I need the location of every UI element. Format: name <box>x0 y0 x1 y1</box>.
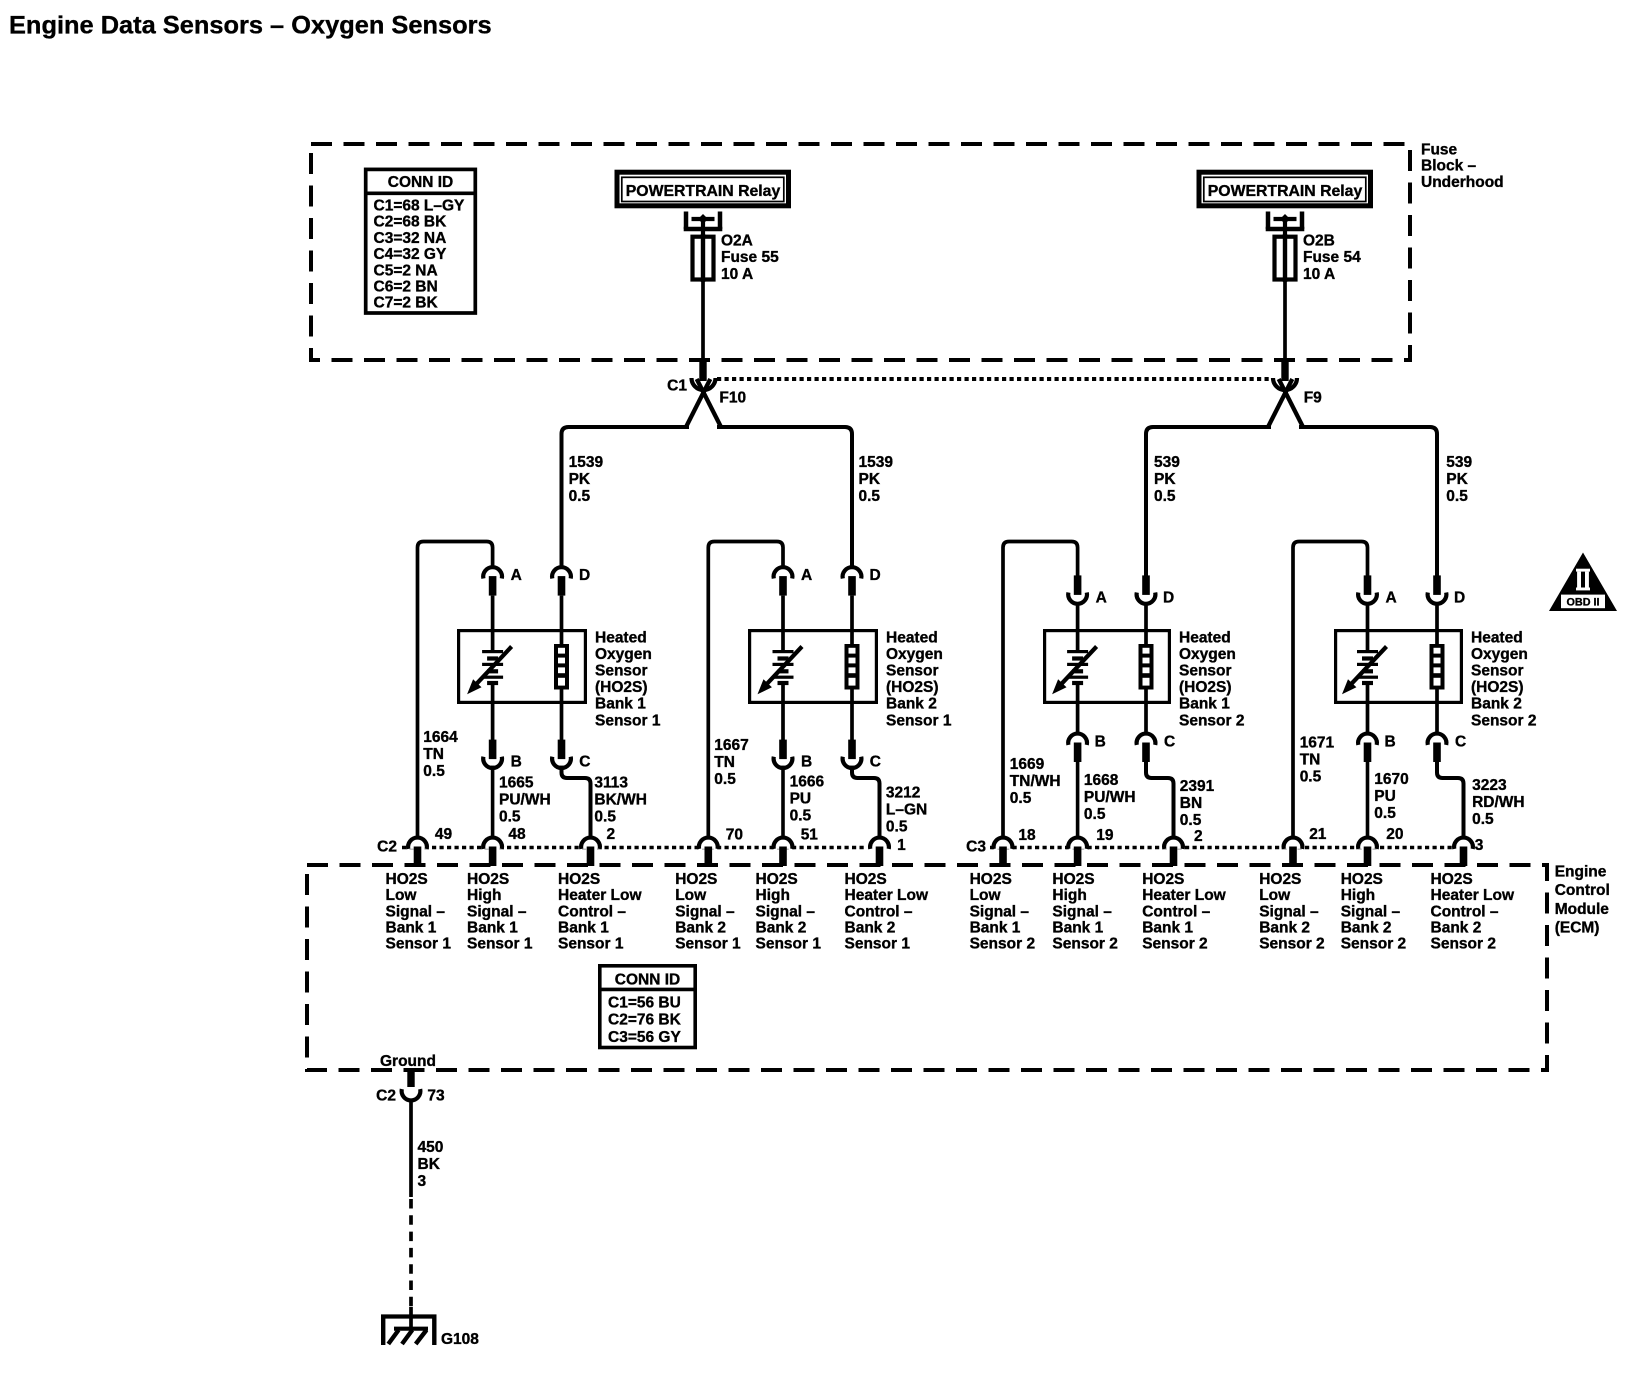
svg-text:A: A <box>1386 590 1397 607</box>
variable voltage sensing element (zirconia cell) <box>1357 650 1378 685</box>
svg-text:0.5: 0.5 <box>1010 790 1032 807</box>
svg-text:Oxygen: Oxygen <box>1471 646 1528 663</box>
svg-text:1665: 1665 <box>499 774 534 791</box>
wire D into sensor heater <box>560 596 564 647</box>
svg-text:Sensor 1: Sensor 1 <box>886 712 952 729</box>
svg-text:F10: F10 <box>719 390 746 407</box>
svg-text:Bank 2: Bank 2 <box>756 919 807 936</box>
svg-text:Bank 2: Bank 2 <box>675 919 726 936</box>
svg-text:PK: PK <box>569 471 591 488</box>
svg-text:C3=56 GY: C3=56 GY <box>608 1029 681 1046</box>
svg-text:HO2S: HO2S <box>558 871 600 888</box>
connector pin D (HO2S Bank 2 Sensor 2) <box>1428 575 1447 603</box>
svg-text:Sensor 1: Sensor 1 <box>845 936 911 953</box>
wire splice to D of Bank 2 Sensor 2 <box>1299 427 1437 576</box>
svg-text:Sensor 1: Sensor 1 <box>675 936 741 953</box>
wire 2391 to ECM (jogged) <box>1146 760 1174 838</box>
wire heater to pin C <box>850 689 854 742</box>
svg-text:Heater Low: Heater Low <box>1142 887 1226 904</box>
heater element <box>554 644 569 690</box>
wire 1665 to ECM <box>491 766 495 838</box>
svg-text:A: A <box>1096 590 1107 607</box>
svg-text:BN: BN <box>1180 795 1202 812</box>
fuse O2B Fuse 54 10 A <box>1275 234 1296 282</box>
svg-text:1: 1 <box>897 837 906 854</box>
svg-text:2: 2 <box>1194 828 1203 845</box>
ECM pin 70 <box>699 838 718 866</box>
connector pin B (HO2S Bank 1 Sensor 2) <box>1068 734 1087 762</box>
wire 1666 to ECM <box>781 766 785 838</box>
svg-text:20: 20 <box>1386 826 1403 843</box>
wire heater to pin C <box>1144 689 1148 736</box>
wire 1670 to ECM <box>1366 760 1370 838</box>
svg-text:HO2S: HO2S <box>970 871 1012 888</box>
svg-text:(HO2S): (HO2S) <box>595 679 648 696</box>
svg-text:Signal –: Signal – <box>1259 903 1319 920</box>
wire heater to pin C <box>560 689 564 742</box>
svg-text:70: 70 <box>726 827 743 844</box>
connector C2 dotted interface line <box>402 846 867 850</box>
svg-text:PU: PU <box>1374 788 1396 805</box>
svg-text:3113: 3113 <box>594 774 628 791</box>
svg-text:C7=2 BK: C7=2 BK <box>374 295 439 312</box>
fuse block underhood dashed boundary <box>311 144 1410 360</box>
svg-text:450: 450 <box>418 1139 444 1156</box>
ECM pin 2 <box>1164 838 1183 866</box>
engine control module dashed boundary <box>307 865 1547 1070</box>
ECM pin 48 <box>483 838 502 866</box>
svg-text:Heater Low: Heater Low <box>558 887 642 904</box>
svg-text:B: B <box>1095 733 1106 750</box>
svg-text:0.5: 0.5 <box>1180 812 1202 829</box>
svg-text:HO2S: HO2S <box>1259 871 1301 888</box>
svg-text:0.5: 0.5 <box>790 807 812 824</box>
connector pin D (HO2S Bank 2 Sensor 1) <box>843 567 862 595</box>
svg-text:L–GN: L–GN <box>886 802 927 819</box>
svg-text:C4=32 GY: C4=32 GY <box>374 246 447 263</box>
connector C1 terminal F10 (splice to both banks) <box>692 361 716 390</box>
svg-text:Sensor: Sensor <box>1179 663 1232 680</box>
svg-text:Sensor 1: Sensor 1 <box>558 936 624 953</box>
connector terminal F9 (splice to both banks, sensor 2) <box>1273 361 1297 390</box>
ECM pin 19 <box>1068 838 1087 866</box>
svg-text:CONN ID: CONN ID <box>388 174 453 191</box>
wire low signal 1669 (jog to pin A) <box>1003 542 1078 839</box>
svg-text:Heater Low: Heater Low <box>845 887 929 904</box>
svg-text:Signal –: Signal – <box>467 903 527 920</box>
svg-text:O2B: O2B <box>1303 233 1335 250</box>
svg-text:Bank 1: Bank 1 <box>467 919 518 936</box>
wire A into sensor <box>491 596 495 651</box>
connector pin C (HO2S Bank 2 Sensor 1) <box>843 740 862 768</box>
svg-text:Low: Low <box>675 887 707 904</box>
svg-text:PK: PK <box>859 471 881 488</box>
svg-text:HO2S: HO2S <box>845 871 887 888</box>
svg-text:HO2S: HO2S <box>675 871 717 888</box>
svg-text:C6=2 BN: C6=2 BN <box>374 279 438 296</box>
svg-text:1669: 1669 <box>1010 756 1045 773</box>
connector pin A (HO2S Bank 1 Sensor 1) <box>483 567 502 595</box>
svg-text:OBD II: OBD II <box>1567 597 1600 609</box>
svg-text:C5=2 NA: C5=2 NA <box>374 262 438 279</box>
svg-text:Engine Data Sensors – Oxygen S: Engine Data Sensors – Oxygen Sensors <box>9 12 492 40</box>
svg-text:Signal –: Signal – <box>1052 903 1112 920</box>
svg-text:TN/WH: TN/WH <box>1010 773 1061 790</box>
connector pin D (HO2S Bank 1 Sensor 1) <box>552 567 571 595</box>
svg-text:Signal –: Signal – <box>1341 903 1401 920</box>
svg-text:POWERTRAIN Relay: POWERTRAIN Relay <box>1208 183 1363 200</box>
svg-text:Heated: Heated <box>595 629 647 646</box>
svg-text:Block –: Block – <box>1421 158 1477 175</box>
wire 3113 to ECM (jogged) <box>562 766 591 838</box>
svg-text:BK: BK <box>418 1156 441 1173</box>
svg-text:Signal –: Signal – <box>675 903 735 920</box>
connector pin D (HO2S Bank 1 Sensor 2) <box>1137 575 1156 603</box>
ECM pin 2 <box>581 838 600 866</box>
svg-text:Bank 1: Bank 1 <box>595 696 646 713</box>
svg-text:0.5: 0.5 <box>569 488 591 505</box>
relay output contact bracket <box>684 212 723 230</box>
svg-text:1670: 1670 <box>1374 771 1408 788</box>
sensor box HO2S Bank 1 Sensor 2 <box>1045 631 1170 703</box>
svg-text:(HO2S): (HO2S) <box>1179 679 1232 696</box>
svg-text:C1=56 BU: C1=56 BU <box>608 995 681 1012</box>
connector pin C (HO2S Bank 2 Sensor 2) <box>1428 734 1447 762</box>
svg-text:Sensor 2: Sensor 2 <box>1341 936 1406 953</box>
sensor box HO2S Bank 2 Sensor 2 <box>1336 631 1462 703</box>
svg-text:Ground: Ground <box>380 1053 436 1070</box>
connector pin C (HO2S Bank 1 Sensor 1) <box>552 740 571 768</box>
wire 3223 to ECM (jogged) <box>1437 760 1464 838</box>
svg-text:0.5: 0.5 <box>1446 488 1468 505</box>
ECM pin 3 <box>1454 838 1473 866</box>
svg-text:(HO2S): (HO2S) <box>1471 679 1524 696</box>
svg-text:Sensor 1: Sensor 1 <box>756 936 822 953</box>
svg-text:HO2S: HO2S <box>467 871 509 888</box>
svg-text:49: 49 <box>435 826 453 843</box>
svg-text:0.5: 0.5 <box>859 488 881 505</box>
connector ID table (ECM) <box>598 966 697 1048</box>
variable voltage sensing element (zirconia cell) <box>482 650 503 685</box>
wire element to pin B <box>1076 683 1080 736</box>
svg-text:Heater Low: Heater Low <box>1431 887 1515 904</box>
svg-text:C: C <box>870 753 881 770</box>
svg-text:539: 539 <box>1446 454 1472 471</box>
svg-text:HO2S: HO2S <box>756 871 798 888</box>
svg-text:0.5: 0.5 <box>714 771 736 788</box>
svg-text:A: A <box>801 567 812 584</box>
svg-text:Signal –: Signal – <box>970 903 1030 920</box>
svg-text:Sensor 1: Sensor 1 <box>386 936 452 953</box>
ECM pin 49 <box>408 838 427 866</box>
svg-text:Heated: Heated <box>1179 629 1231 646</box>
heater element <box>1139 644 1154 690</box>
svg-text:High: High <box>1052 887 1086 904</box>
svg-text:0.5: 0.5 <box>423 763 445 780</box>
svg-text:D: D <box>1163 590 1174 607</box>
svg-text:CONN ID: CONN ID <box>615 971 680 988</box>
svg-text:PU: PU <box>790 790 812 807</box>
wire D into sensor heater <box>1144 603 1148 647</box>
wire fuse O2A down to fuse block edge <box>701 281 705 361</box>
svg-text:C3=32 NA: C3=32 NA <box>374 230 447 247</box>
svg-text:C2: C2 <box>377 839 397 856</box>
connector pin A (HO2S Bank 2 Sensor 2) <box>1358 575 1377 603</box>
svg-text:Control –: Control – <box>1431 903 1499 920</box>
svg-text:PK: PK <box>1446 471 1468 488</box>
svg-text:Oxygen: Oxygen <box>595 646 652 663</box>
svg-text:1664: 1664 <box>423 729 458 746</box>
svg-text:Sensor 2: Sensor 2 <box>1142 936 1207 953</box>
svg-text:TN: TN <box>1300 751 1321 768</box>
svg-text:O2A: O2A <box>721 233 753 250</box>
svg-text:0.5: 0.5 <box>1084 806 1106 823</box>
svg-text:Oxygen: Oxygen <box>1179 646 1236 663</box>
svg-text:Bank 1: Bank 1 <box>386 919 437 936</box>
svg-text:Bank 2: Bank 2 <box>1431 919 1482 936</box>
wire 450 BK (dashed continuation) <box>409 1199 413 1309</box>
svg-text:0.5: 0.5 <box>886 819 908 836</box>
svg-text:Underhood: Underhood <box>1421 174 1504 191</box>
svg-text:Sensor 2: Sensor 2 <box>1052 936 1117 953</box>
svg-text:C2=68 BK: C2=68 BK <box>374 214 448 231</box>
relay POWERTRAIN Relay (O2A branch) <box>617 172 789 206</box>
connector C2 pin 73 (ground) <box>402 1069 421 1100</box>
svg-text:Heated: Heated <box>886 629 938 646</box>
svg-text:Engine: Engine <box>1555 863 1607 880</box>
wire 1668 to ECM <box>1076 760 1080 838</box>
svg-text:C2: C2 <box>376 1088 396 1105</box>
svg-text:Control: Control <box>1555 882 1610 899</box>
svg-text:Bank 2: Bank 2 <box>1341 919 1392 936</box>
svg-text:Sensor: Sensor <box>1471 663 1524 680</box>
svg-text:Bank 1: Bank 1 <box>1179 696 1230 713</box>
svg-text:TN: TN <box>714 754 735 771</box>
svg-text:Sensor: Sensor <box>886 663 939 680</box>
connector pin C (HO2S Bank 1 Sensor 2) <box>1137 734 1156 762</box>
svg-text:Bank 1: Bank 1 <box>970 919 1021 936</box>
svg-text:D: D <box>579 567 590 584</box>
wire element to pin B <box>491 683 495 742</box>
svg-text:1539: 1539 <box>569 454 604 471</box>
wire splice to D of Bank 2 Sensor 1 <box>717 427 852 568</box>
svg-text:Sensor 2: Sensor 2 <box>1259 936 1324 953</box>
svg-text:Low: Low <box>1259 887 1291 904</box>
svg-text:HO2S: HO2S <box>1431 871 1473 888</box>
svg-text:C: C <box>579 753 590 770</box>
wire relay to fuse O2B <box>1283 219 1287 237</box>
svg-text:Module: Module <box>1555 901 1610 918</box>
svg-text:B: B <box>801 753 812 770</box>
svg-text:539: 539 <box>1154 454 1180 471</box>
wire A into sensor <box>1366 603 1370 651</box>
svg-text:Fuse 55: Fuse 55 <box>721 249 779 266</box>
svg-text:2: 2 <box>607 826 616 843</box>
svg-text:High: High <box>1341 887 1375 904</box>
relay output contact bracket <box>1266 212 1305 230</box>
wire A into sensor <box>1076 603 1080 651</box>
svg-text:C1: C1 <box>667 377 687 394</box>
svg-text:HO2S: HO2S <box>1142 871 1184 888</box>
svg-text:Sensor 2: Sensor 2 <box>1471 712 1536 729</box>
svg-text:C3: C3 <box>966 839 986 856</box>
wire element to pin B <box>1366 683 1370 736</box>
wire 450 BK 3 (solid part) <box>409 1101 413 1197</box>
svg-text:C2=76 BK: C2=76 BK <box>608 1012 682 1029</box>
svg-text:(ECM): (ECM) <box>1555 920 1600 937</box>
svg-text:RD/WH: RD/WH <box>1472 794 1525 811</box>
svg-text:Control –: Control – <box>558 903 626 920</box>
svg-text:D: D <box>870 567 881 584</box>
svg-text:B: B <box>1385 733 1396 750</box>
svg-text:Bank 2: Bank 2 <box>1259 919 1310 936</box>
svg-text:Oxygen: Oxygen <box>886 646 943 663</box>
svg-text:Bank 1: Bank 1 <box>1052 919 1103 936</box>
wire low signal 1664 (jog to pin A) <box>418 542 493 839</box>
svg-text:C: C <box>1455 733 1466 750</box>
svg-text:10 A: 10 A <box>721 266 753 283</box>
svg-text:Sensor: Sensor <box>595 663 648 680</box>
connector ID table (fuse block) <box>364 169 477 313</box>
svg-text:1667: 1667 <box>714 737 748 754</box>
splice X below F9 <box>1269 379 1303 426</box>
wire element to pin B <box>781 683 785 742</box>
svg-text:0.5: 0.5 <box>1154 488 1176 505</box>
svg-text:0.5: 0.5 <box>499 808 521 825</box>
fuse O2A Fuse 55 10 A <box>693 234 714 282</box>
svg-text:C1=68 L–GY: C1=68 L–GY <box>374 197 466 214</box>
svg-text:2391: 2391 <box>1180 778 1215 795</box>
svg-text:C: C <box>1164 733 1175 750</box>
heater element <box>845 644 860 690</box>
svg-text:Low: Low <box>970 887 1002 904</box>
svg-text:POWERTRAIN Relay: POWERTRAIN Relay <box>626 183 781 200</box>
svg-text:48: 48 <box>508 826 526 843</box>
svg-text:Fuse: Fuse <box>1421 141 1458 158</box>
wire 3212 to ECM (jogged) <box>852 766 880 838</box>
connector C3 dotted interface line <box>990 846 1452 850</box>
connector pin B (HO2S Bank 2 Sensor 1) <box>774 740 793 768</box>
svg-text:1671: 1671 <box>1300 734 1335 751</box>
svg-text:0.5: 0.5 <box>1374 805 1396 822</box>
svg-text:3223: 3223 <box>1472 777 1507 794</box>
svg-text:HO2S: HO2S <box>1052 871 1094 888</box>
wire heater to pin C <box>1435 689 1439 736</box>
svg-text:High: High <box>756 887 790 904</box>
wire splice to D of Bank 1 Sensor 2 <box>1146 427 1271 576</box>
wire D into sensor heater <box>1435 603 1439 647</box>
svg-text:PK: PK <box>1154 471 1176 488</box>
svg-text:HO2S: HO2S <box>1341 871 1383 888</box>
ECM pin 18 <box>994 838 1013 866</box>
svg-text:F9: F9 <box>1304 390 1322 407</box>
ECM pin 21 <box>1284 838 1303 866</box>
svg-text:(HO2S): (HO2S) <box>886 679 939 696</box>
svg-text:Bank 2: Bank 2 <box>886 696 937 713</box>
svg-text:D: D <box>1454 590 1465 607</box>
svg-text:3: 3 <box>1475 837 1484 854</box>
svg-text:0.5: 0.5 <box>1472 811 1494 828</box>
svg-text:3212: 3212 <box>886 785 920 802</box>
svg-text:19: 19 <box>1096 827 1114 844</box>
relay POWERTRAIN Relay (O2B branch) <box>1199 172 1371 206</box>
variable voltage sensing element (zirconia cell) <box>1067 650 1088 685</box>
svg-text:PU/WH: PU/WH <box>1084 789 1136 806</box>
svg-text:Bank 1: Bank 1 <box>1142 919 1193 936</box>
svg-text:10 A: 10 A <box>1303 266 1335 283</box>
svg-text:HO2S: HO2S <box>386 871 428 888</box>
svg-text:3: 3 <box>418 1173 427 1190</box>
svg-text:Heated: Heated <box>1471 629 1523 646</box>
wire relay to fuse O2A <box>701 219 705 237</box>
connector pin A (HO2S Bank 1 Sensor 2) <box>1068 575 1087 603</box>
wire A into sensor <box>781 596 785 651</box>
svg-text:73: 73 <box>427 1088 445 1105</box>
connector pin A (HO2S Bank 2 Sensor 1) <box>774 567 793 595</box>
svg-text:PU/WH: PU/WH <box>499 791 551 808</box>
svg-text:A: A <box>511 567 522 584</box>
svg-text:1668: 1668 <box>1084 772 1119 789</box>
svg-text:TN: TN <box>423 746 444 763</box>
svg-text:Bank 2: Bank 2 <box>845 919 896 936</box>
OBD II marker triangle <box>1549 553 1617 612</box>
svg-text:Bank 2: Bank 2 <box>1471 696 1522 713</box>
ground G108 symbol <box>381 1307 437 1345</box>
svg-text:21: 21 <box>1309 826 1327 843</box>
svg-text:Sensor 2: Sensor 2 <box>970 936 1035 953</box>
wire D into sensor heater <box>850 596 854 647</box>
ECM pin 20 <box>1358 838 1377 866</box>
ECM pin 1 <box>870 838 889 866</box>
splice X below C1 <box>687 379 721 426</box>
connector pin B (HO2S Bank 2 Sensor 2) <box>1358 734 1377 762</box>
svg-text:BK/WH: BK/WH <box>594 791 647 808</box>
svg-text:Sensor 2: Sensor 2 <box>1431 936 1496 953</box>
heater element <box>1430 644 1445 690</box>
svg-text:Sensor 1: Sensor 1 <box>467 936 533 953</box>
sensor box HO2S Bank 2 Sensor 1 <box>750 631 877 703</box>
svg-text:1539: 1539 <box>859 454 894 471</box>
svg-text:High: High <box>467 887 501 904</box>
svg-text:Signal –: Signal – <box>756 903 816 920</box>
svg-text:0.5: 0.5 <box>1300 768 1322 785</box>
svg-text:Fuse 54: Fuse 54 <box>1303 249 1361 266</box>
svg-text:Control –: Control – <box>1142 903 1210 920</box>
svg-text:Sensor 2: Sensor 2 <box>1179 712 1244 729</box>
svg-text:1666: 1666 <box>790 773 825 790</box>
svg-text:51: 51 <box>801 827 819 844</box>
svg-text:0.5: 0.5 <box>594 808 616 825</box>
svg-text:Low: Low <box>386 887 418 904</box>
wire fuse O2B down to fuse block edge <box>1283 281 1287 361</box>
svg-text:Bank 1: Bank 1 <box>558 919 609 936</box>
wire low signal 1667 (jog to pin A) <box>708 542 783 839</box>
variable voltage sensing element (zirconia cell) <box>773 650 794 685</box>
wire splice to D of Bank 1 Sensor 1 <box>562 427 690 568</box>
ECM pin 51 <box>774 838 793 866</box>
svg-text:18: 18 <box>1018 827 1036 844</box>
connector pin B (HO2S Bank 1 Sensor 1) <box>483 740 502 768</box>
svg-text:Sensor 1: Sensor 1 <box>595 712 661 729</box>
svg-text:B: B <box>511 753 522 770</box>
sensor box HO2S Bank 1 Sensor 1 <box>459 631 586 703</box>
dotted fuse block interface line C1 to F9 <box>717 377 1271 381</box>
svg-text:G108: G108 <box>441 1331 479 1348</box>
svg-text:Signal –: Signal – <box>386 903 446 920</box>
wire low signal 1671 (jog to pin A) <box>1293 542 1368 839</box>
svg-text:Control –: Control – <box>845 903 913 920</box>
